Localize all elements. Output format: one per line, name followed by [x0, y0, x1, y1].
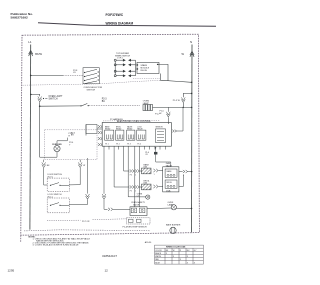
- bake row connectors: [130, 170, 135, 173]
- wire rail branch to lamp: [40, 152, 57, 158]
- broil igniter out connectors: [153, 185, 158, 188]
- cycling light wire: [128, 150, 146, 197]
- bottom dashed harness: [24, 230, 150, 231]
- oven indicator dashed box: [45, 130, 97, 160]
- svg-text:GY: GY: [145, 154, 148, 156]
- svg-text:A99-36: A99-36: [145, 241, 152, 244]
- selector feed wire: [31, 74, 63, 76]
- dashed sensor harness line: [47, 219, 81, 221]
- svg-text:P1-9 W: P1-9 W: [173, 100, 180, 102]
- svg-text:W: W: [182, 52, 185, 56]
- oven selector switch S1: [83, 68, 99, 84]
- oven lamp: [171, 205, 176, 210]
- broil igniter row wire: [114, 150, 129, 188]
- top burner switch row 3: [114, 70, 135, 72]
- svg-text:2: 2: [135, 191, 136, 193]
- wire module bottom to bus: [160, 74, 191, 83]
- cycling light: [146, 195, 150, 199]
- svg-text:2: 2: [135, 175, 136, 177]
- svg-text:WHITE: WHITE: [155, 256, 162, 258]
- svg-text:SWITCH: SWITCH: [49, 99, 58, 101]
- svg-text:BAKE: BAKE: [167, 170, 173, 173]
- top burner switch row 2: [114, 64, 135, 66]
- svg-text:COLOR: COLOR: [155, 250, 162, 252]
- svg-text:1 OF 4: 1 OF 4: [117, 57, 123, 59]
- oven light wire: [40, 105, 81, 107]
- svg-text:P2-7 OR: P2-7 OR: [82, 221, 90, 223]
- svg-text:P1 3: P1 3: [127, 144, 131, 146]
- safety valve in connectors: [108, 208, 113, 211]
- dashed sensor box: [127, 218, 151, 224]
- wire module to N: [158, 64, 168, 81]
- svg-text:12: 12: [105, 269, 109, 273]
- svg-text:X: X: [180, 259, 182, 261]
- svg-text:FGF376WC: FGF376WC: [106, 13, 124, 17]
- branch wire to P1 connector: [31, 94, 40, 96]
- svg-text:L1: L1: [28, 40, 32, 44]
- electronic oven control U2: [102, 123, 171, 147]
- svg-text:P1 2: P1 2: [116, 144, 120, 146]
- svg-text:BLACK: BLACK: [155, 252, 162, 255]
- clock box: [86, 125, 97, 134]
- svg-text:(N.O.): (N.O.): [48, 177, 54, 179]
- N rail wire: [191, 45, 194, 233]
- footer wire color code table: [155, 245, 204, 264]
- P1 connector: [38, 97, 42, 102]
- indicator lamp: [54, 146, 60, 152]
- svg-text:DUAL: DUAL: [166, 189, 171, 192]
- broil igniter: [142, 184, 152, 190]
- svg-text:3. CODES: BK-BLACK W-WHITE R: 3. CODES: BK-BLACK W-WHITE R-RED BU-BLUE: [33, 244, 80, 247]
- feeder wire to module: [135, 60, 137, 75]
- svg-text:WIRING COLOR CODE: WIRING COLOR CODE: [166, 247, 186, 249]
- safety valve box: [130, 207, 147, 216]
- wire valve to lamp to N: [147, 207, 171, 210]
- svg-text:BK/W: BK/W: [35, 52, 42, 56]
- wire lamp up and right: [57, 138, 67, 146]
- EOC bottom pins: [104, 146, 166, 149]
- transformer under EOC: [155, 147, 156, 148]
- svg-text:OVEN TEMP SENSOR: OVEN TEMP SENSOR: [126, 227, 147, 229]
- svg-text:RED: RED: [155, 259, 159, 261]
- wire lamp to N: [153, 106, 192, 108]
- burner switch vertical bus: [114, 61, 116, 74]
- svg-text:5995271692: 5995271692: [11, 16, 28, 20]
- svg-text:VALVE: VALVE: [133, 204, 140, 207]
- bake igniter out connectors: [153, 169, 158, 172]
- dashed harness line B: [103, 119, 160, 122]
- rail branch continues down: [39, 106, 41, 157]
- svg-text:X: X: [187, 256, 189, 258]
- svg-text:SENSOR: SENSOR: [156, 126, 164, 128]
- svg-text:X: X: [173, 256, 175, 258]
- connector pin labels: [130, 174, 184, 192]
- EOC left connectors: [98, 125, 102, 146]
- wire switch to lamp: [89, 104, 140, 106]
- svg-text:SWITCH: SWITCH: [87, 89, 96, 91]
- svg-text:RE-IGN: RE-IGN: [141, 70, 148, 72]
- dashed under module: [133, 78, 160, 80]
- bake igniter row wire: [124, 150, 130, 172]
- svg-text:318542107: 318542107: [102, 254, 117, 258]
- svg-text:P5: P5: [130, 191, 132, 193]
- svg-text:W: W: [160, 113, 162, 115]
- oven valve drops: [134, 150, 136, 207]
- EOC right connector: [172, 130, 176, 133]
- svg-text:P4: P4: [130, 175, 132, 177]
- wire down to light row: [39, 102, 41, 106]
- oven safety valve wire: [103, 150, 105, 194]
- convection motor: [170, 227, 176, 233]
- broil solenoid: [165, 180, 177, 188]
- bake igniter: [142, 168, 152, 174]
- gas valve box: [163, 167, 179, 192]
- junction N bus: [191, 82, 193, 84]
- light switch blade: [82, 104, 88, 106]
- connector on x104 drop: [102, 194, 106, 199]
- left border tail: [20, 235, 22, 242]
- L1 connector: [29, 50, 33, 56]
- bake solenoid: [165, 169, 177, 177]
- N drop wire: [183, 93, 191, 97]
- svg-text:P1 4: P1 4: [137, 144, 141, 146]
- header publication text: [11, 12, 34, 20]
- schematic outer border: [21, 34, 200, 235]
- vertical drop x87: [87, 158, 89, 194]
- svg-text:IGN: IGN: [144, 183, 148, 185]
- broil row connectors: [130, 186, 135, 189]
- N drop connector: [181, 97, 185, 102]
- svg-text:1295: 1295: [8, 269, 15, 273]
- top burner switch row 1: [114, 59, 135, 61]
- N connector: [190, 51, 194, 57]
- svg-text:BK: BK: [47, 165, 50, 167]
- svg-text:W: W: [173, 250, 175, 252]
- door switch dashed box: [47, 178, 69, 191]
- lock switch dashed box: [47, 198, 69, 213]
- spark module U1: [137, 62, 159, 73]
- svg-text:IGN: IGN: [144, 167, 148, 169]
- svg-text:(N.C.): (N.C.): [48, 197, 54, 199]
- svg-text:P1 1: P1 1: [105, 144, 109, 146]
- top burner switch row 4: [114, 75, 135, 77]
- svg-text:BROIL: BROIL: [167, 182, 172, 184]
- connector on left drop: [42, 162, 46, 167]
- svg-text:1: 1: [154, 174, 155, 176]
- dashed harness line A: [23, 80, 161, 85]
- valve out connectors: [183, 170, 188, 173]
- svg-text:BU: BU: [102, 101, 106, 103]
- valve out row2 merge: [179, 175, 184, 187]
- selector feed junction: [30, 75, 32, 77]
- svg-text:BLUE: BLUE: [155, 262, 160, 264]
- svg-text:Y: Y: [69, 145, 71, 147]
- L1 rail wire: [29, 45, 32, 230]
- vertical drop x80: [79, 160, 81, 163]
- header rule: [38, 23, 216, 27]
- svg-text:W: W: [83, 165, 85, 167]
- EOC N connector: [167, 107, 169, 111]
- svg-text:N: N: [190, 40, 192, 44]
- oven lamp receptacle: [143, 105, 153, 111]
- svg-text:BAKE BURNER: BAKE BURNER: [166, 223, 181, 226]
- drop from dashed box: [43, 160, 45, 163]
- svg-text:GY: GY: [73, 72, 77, 74]
- junction on L1 rail: [30, 94, 32, 96]
